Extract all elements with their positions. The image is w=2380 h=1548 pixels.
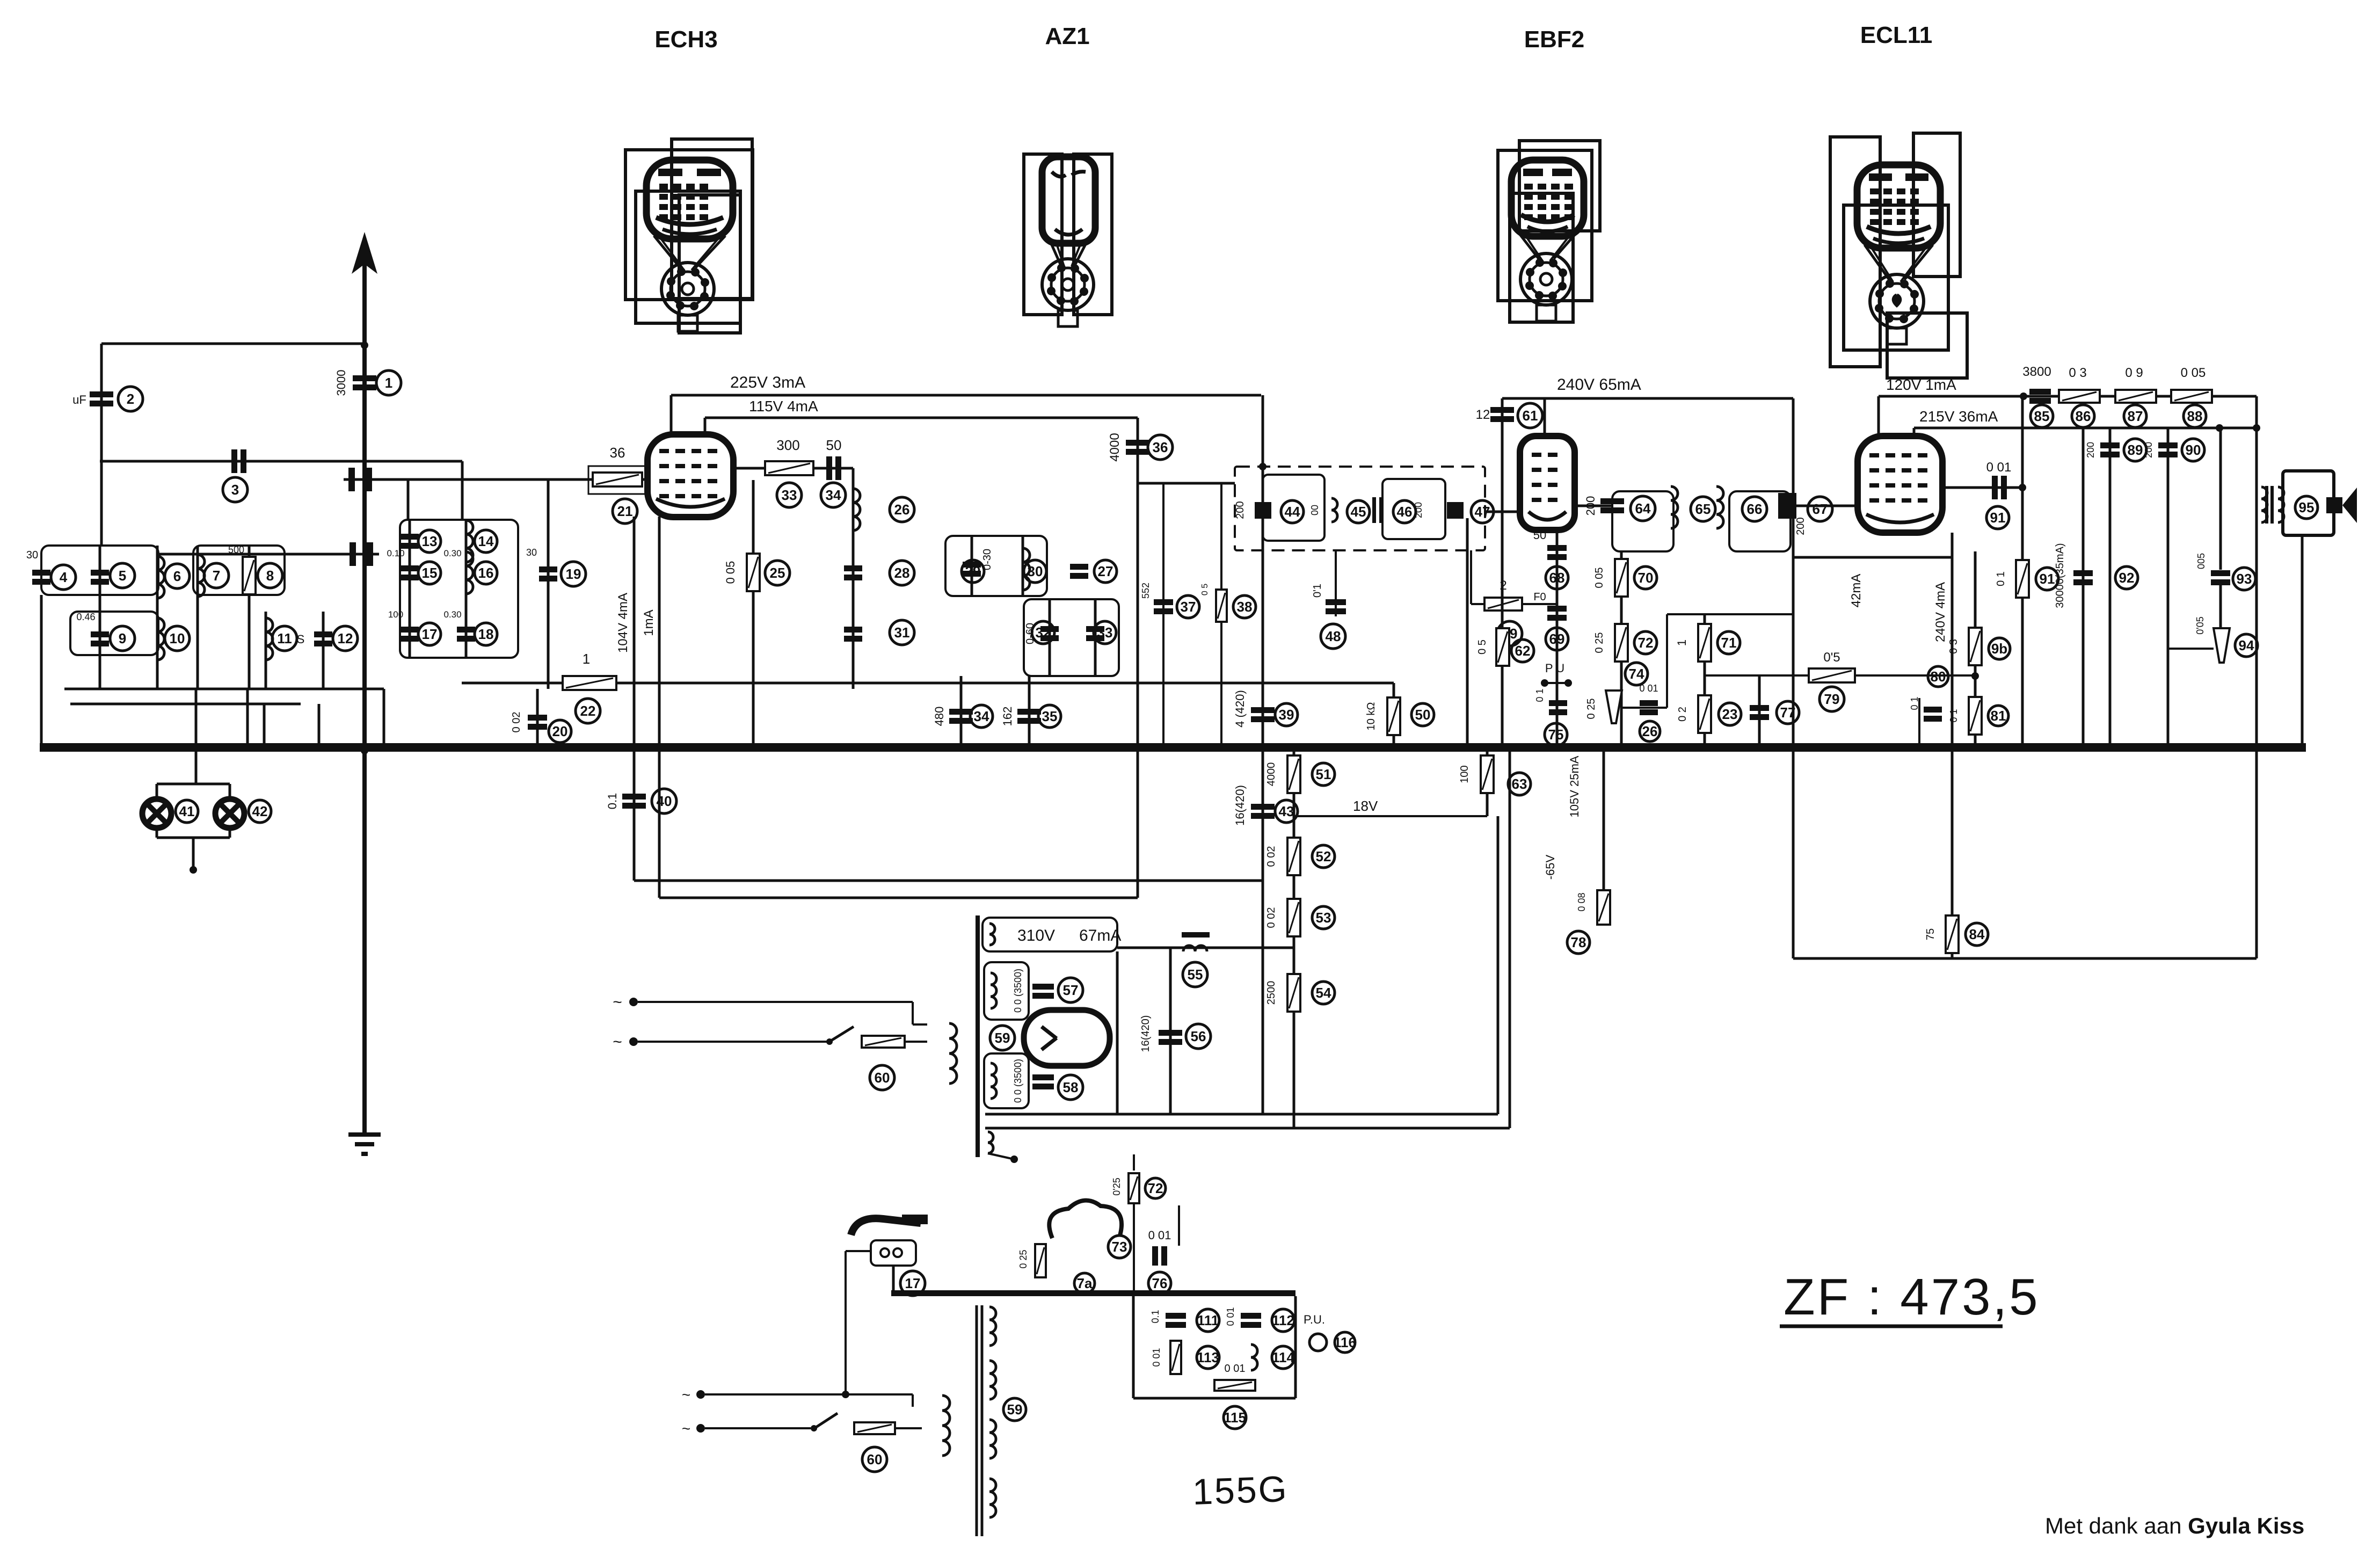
svg-text:115: 115 (1224, 1409, 1246, 1426)
capacitor 69 F0 (1547, 606, 1567, 621)
wire (638, 1041, 827, 1043)
ref circle 4 (51, 565, 76, 590)
wire (2255, 396, 2258, 958)
capacitor 111 0.1 (1166, 1313, 1186, 1328)
wire (942, 1293, 943, 1394)
dial lamp 2 (215, 799, 244, 828)
svg-text:0 05: 0 05 (1593, 568, 1605, 588)
IF box 2 (1382, 479, 1445, 539)
wire (2219, 585, 2222, 628)
svg-text:240V 65mA: 240V 65mA (1557, 376, 1641, 394)
capacitor 68 50 (1547, 545, 1567, 560)
speaker box (2283, 471, 2334, 535)
wire (263, 704, 266, 751)
svg-text:116: 116 (1334, 1334, 1356, 1350)
wire (156, 546, 159, 689)
wire (265, 612, 267, 689)
svg-text:67mA: 67mA (1079, 927, 1121, 944)
svg-text:200: 200 (2143, 442, 2154, 458)
tube ECL11 pictorial (1830, 133, 1967, 378)
wire (322, 612, 325, 689)
wire (985, 1113, 1498, 1116)
svg-text:9: 9 (119, 630, 126, 646)
ref circle 85 (2030, 405, 2053, 427)
chassis ground bus (40, 743, 2306, 752)
wire (1793, 556, 1952, 559)
svg-text:63: 63 (1512, 776, 1527, 792)
svg-text:43: 43 (1279, 803, 1294, 819)
HT winding box 310V (982, 918, 1117, 951)
output transformer (2267, 486, 2272, 524)
ref circle 115 (1224, 1406, 1246, 1429)
wire (2167, 428, 2170, 743)
svg-text:2500: 2500 (1265, 981, 1277, 1005)
svg-text:48: 48 (1326, 628, 1341, 644)
wire (229, 827, 231, 838)
svg-text:73: 73 (1112, 1239, 1127, 1255)
svg-text:4000: 4000 (1108, 433, 1122, 461)
svg-text:0 01: 0 01 (1225, 1307, 1236, 1326)
svg-text:P U: P U (1545, 662, 1564, 675)
svg-text:AZ1: AZ1 (1045, 23, 1089, 49)
svg-text:4 (420): 4 (420) (1233, 690, 1247, 728)
wire (1501, 398, 1504, 743)
svg-text:17: 17 (905, 1275, 921, 1291)
svg-text:ZF : 473,5: ZF : 473,5 (1784, 1268, 2040, 1326)
tube AZ1 pictorial (1024, 154, 1112, 326)
wire (1951, 533, 1954, 743)
ref circle 42 (249, 800, 271, 823)
capacitor 33b (1086, 626, 1104, 641)
ref circle 11 (272, 626, 297, 651)
svg-text:105V 25mA: 105V 25mA (1568, 755, 1581, 817)
svg-text:3: 3 (231, 482, 239, 498)
ref circle 60 (870, 1065, 894, 1090)
ref circle 116 (1334, 1332, 1356, 1353)
svg-text:0 01: 0 01 (1151, 1348, 1162, 1367)
ref circle 91 (2036, 568, 2058, 590)
coil (988, 1132, 993, 1153)
svg-text:74: 74 (1629, 666, 1644, 682)
IFT coil a (1671, 486, 1678, 528)
coil (942, 1396, 950, 1456)
ref circle 89 (2124, 439, 2146, 461)
wire (1116, 951, 1119, 1114)
wire (195, 751, 198, 784)
svg-text:16(420): 16(420) (1140, 1015, 1152, 1052)
resistor 0.9 (2115, 390, 2156, 403)
output transformer secondary (2278, 487, 2284, 522)
IFT coil b (1716, 486, 1723, 528)
svg-text:0 9: 0 9 (2125, 366, 2143, 380)
wire (1791, 505, 1858, 507)
ref circle 72 (1145, 1178, 1166, 1198)
wire (671, 394, 1261, 397)
svg-text:92: 92 (2119, 570, 2135, 586)
pickup PU (1309, 1334, 1327, 1351)
svg-text:72: 72 (1638, 635, 1654, 651)
ref circle 79 (1819, 687, 1844, 711)
svg-text:18V: 18V (1353, 798, 1378, 814)
capacitor 3 (231, 449, 246, 473)
svg-text:200: 200 (1795, 517, 1807, 535)
svg-text:225V 3mA: 225V 3mA (730, 374, 805, 391)
svg-text:53: 53 (1316, 910, 1331, 926)
ref circle 49 (1497, 621, 1522, 646)
ref circle 59 (1003, 1398, 1026, 1421)
wire (229, 784, 231, 800)
ref circle 30 (1024, 560, 1046, 583)
resistor 8 500 (243, 557, 256, 594)
ref circle 1 (376, 370, 401, 395)
wire (752, 480, 755, 751)
svg-text:94: 94 (2239, 637, 2254, 653)
ref circle 46 (1393, 500, 1416, 523)
svg-text:215V 36mA: 215V 36mA (1919, 408, 1998, 425)
svg-text:21: 21 (617, 503, 633, 519)
coil 10 (157, 618, 164, 660)
svg-text:0.1: 0.1 (606, 793, 619, 810)
ref circle 48 (1321, 624, 1345, 649)
switch contact box (588, 466, 646, 494)
ref circle 44 (1281, 500, 1304, 523)
svg-text:0 3: 0 3 (1948, 639, 1960, 654)
wire (64, 688, 384, 691)
ref circle 74 (1625, 663, 1648, 685)
svg-text:27: 27 (1098, 563, 1113, 579)
wire (705, 1393, 913, 1396)
wire (383, 689, 385, 751)
sub transformer core (976, 1305, 978, 1536)
wire (156, 827, 158, 838)
svg-text:1: 1 (583, 651, 590, 667)
svg-text:6: 6 (173, 568, 181, 584)
wire (248, 546, 251, 689)
resistor 70 0.05 (1615, 559, 1628, 597)
dashed IF filter box (1235, 467, 1485, 550)
wire (1470, 550, 1472, 604)
wire (1914, 427, 2257, 430)
wire (985, 1127, 1510, 1130)
svg-text:113: 113 (1197, 1349, 1219, 1365)
wire (1262, 395, 1264, 1114)
svg-text:65: 65 (1695, 501, 1711, 517)
wire (1132, 1296, 1135, 1398)
svg-text:80: 80 (1931, 668, 1946, 685)
wire (921, 1407, 922, 1428)
capacitor 31 (844, 627, 862, 642)
svg-text:76: 76 (1152, 1275, 1168, 1291)
fuse resistor 60 (862, 1036, 905, 1048)
svg-text:32: 32 (1036, 624, 1051, 641)
wire (1918, 698, 1920, 743)
svg-text:45: 45 (1351, 504, 1366, 520)
winding bumps a (989, 924, 995, 945)
svg-text:8: 8 (266, 568, 274, 584)
svg-text:26: 26 (894, 502, 910, 518)
ref circle 53 (1312, 906, 1335, 929)
capacitor antenna coupling (348, 468, 372, 491)
ref circle 86 (2072, 405, 2094, 427)
ref circle 36 (1148, 435, 1173, 460)
svg-text:4: 4 (60, 569, 68, 585)
capacitor 48 0.1 (1326, 599, 1346, 614)
wire (156, 784, 158, 800)
capacitor 43 16(420) (1251, 804, 1275, 819)
svg-text:115V 4mA: 115V 4mA (749, 398, 818, 415)
wire (1471, 603, 1557, 605)
resistor 81 0.1 (1969, 697, 1982, 735)
svg-text:68: 68 (1549, 570, 1565, 586)
capacitor 36 4000 (1126, 440, 1149, 455)
svg-text:69: 69 (1549, 631, 1565, 647)
ref circle 62 (1511, 639, 1534, 662)
resistor 53 0.02 (1287, 899, 1300, 936)
ref circle 54 (1312, 982, 1335, 1004)
capacitor trap (350, 542, 373, 566)
svg-text:26: 26 (1642, 723, 1658, 739)
svg-text:41: 41 (179, 803, 195, 819)
wire (2168, 648, 2214, 650)
svg-text:7: 7 (213, 568, 220, 584)
svg-text:0 08: 0 08 (1576, 892, 1587, 911)
tube (sub chassis) partial (1049, 1201, 1122, 1238)
wire (192, 838, 195, 870)
svg-text:200: 200 (2085, 442, 2096, 458)
ref circle 91 (1986, 506, 2009, 529)
svg-text:79: 79 (1824, 691, 1840, 707)
svg-text:40: 40 (657, 793, 672, 809)
wire (1974, 551, 1977, 743)
IF transformer box 2 (1729, 491, 1791, 551)
wire (1133, 1203, 1135, 1293)
ref circle 50 (1411, 703, 1434, 726)
capacitor (1032, 984, 1054, 999)
oscillator box 1 (945, 536, 1047, 596)
wire (1169, 948, 1172, 1114)
wire (1913, 428, 1916, 436)
svg-text:35: 35 (1042, 708, 1058, 724)
capacitor 90 200 (2158, 442, 2178, 457)
wire (2301, 535, 2304, 747)
ref circle 6 (165, 564, 190, 588)
svg-text:52: 52 (1316, 848, 1331, 864)
wire (1485, 511, 1520, 512)
ref circle 90 (2182, 439, 2204, 461)
coil 30 (1023, 548, 1030, 590)
sub winding 3 (989, 1420, 996, 1458)
capacitor 91 0.01 (1992, 476, 2007, 499)
capacitor 15 (401, 565, 419, 580)
ref circle 20 (549, 720, 571, 743)
oscillator coil 26 (853, 489, 860, 530)
ref circle 9 (110, 626, 135, 651)
capacitor 56 16(420) (1159, 1030, 1182, 1045)
ref circle 32 (1032, 621, 1054, 644)
svg-text:93: 93 (2237, 571, 2252, 587)
svg-text:~: ~ (613, 993, 622, 1011)
wire (1294, 815, 1487, 817)
wire (1022, 536, 1024, 596)
resistor 38 0.5 (1216, 590, 1227, 622)
resistor 0.3 (2059, 390, 2100, 403)
resistor 72 0.25 (1615, 624, 1628, 662)
ref circle 7 (204, 563, 229, 588)
svg-text:39: 39 (1279, 707, 1294, 723)
ref circle 76 (1148, 1272, 1171, 1295)
ref circle 8 (258, 563, 282, 588)
wire (1951, 752, 1954, 958)
svg-text:86: 86 (2076, 408, 2091, 424)
svg-text:22: 22 (580, 703, 596, 719)
sub winding 2 (989, 1361, 996, 1399)
resistor 72 0.25 (1129, 1173, 1139, 1203)
ref circle 29 (962, 560, 984, 583)
ref circle 17 (900, 1271, 925, 1296)
winding bumps c (991, 1063, 996, 1099)
ref circle 69 (1546, 628, 1568, 650)
wire (1758, 677, 1761, 751)
ref circle 67 (1808, 497, 1832, 521)
ref circle 114 (1272, 1346, 1295, 1369)
svg-text:72: 72 (1148, 1180, 1163, 1196)
speaker icon (2326, 488, 2357, 523)
wire (1793, 957, 2257, 960)
svg-text:16(420): 16(420) (1233, 785, 1247, 826)
svg-text:0.1: 0.1 (1150, 1310, 1161, 1323)
svg-text:59: 59 (995, 1030, 1010, 1046)
svg-text:88: 88 (2187, 408, 2203, 424)
ground symbol (348, 1135, 381, 1154)
wire (960, 1293, 962, 1313)
capacitor 34 50 (826, 456, 841, 480)
svg-text:005: 005 (2196, 553, 2207, 569)
resistor 79 0.5 (1809, 668, 1855, 682)
capacitor 75 0.1 (1549, 700, 1567, 715)
svg-text:12: 12 (1476, 408, 1490, 422)
svg-text:61: 61 (1523, 408, 1538, 424)
ref circle 73 (1108, 1236, 1131, 1258)
resistor 113 0.01 (1170, 1341, 1181, 1374)
svg-text:10 kΩ: 10 kΩ (1365, 702, 1377, 731)
svg-text:1: 1 (385, 375, 392, 391)
wire (988, 1153, 1014, 1159)
capacitor 5 (91, 570, 109, 585)
ref circle 28 (890, 561, 914, 585)
svg-text:uF: uF (72, 393, 86, 406)
wire (704, 418, 707, 434)
wire (318, 704, 321, 751)
svg-text:0.10: 0.10 (387, 548, 404, 558)
wire (1502, 397, 1793, 400)
resistor 54 2500 (1287, 974, 1300, 1012)
ref circle 93 (2233, 568, 2255, 590)
svg-text:112: 112 (1272, 1312, 1294, 1328)
svg-text:S: S (297, 633, 305, 646)
svg-text:84: 84 (1969, 926, 1985, 942)
capacitor 28 (844, 565, 862, 580)
resistor 22 1 (563, 676, 616, 690)
svg-text:62: 62 (1515, 643, 1531, 659)
ref circle 26 (890, 497, 914, 522)
svg-text:55: 55 (1188, 966, 1203, 983)
coil 11 (266, 618, 273, 660)
ref circle 2 (118, 387, 143, 411)
wire (2219, 428, 2222, 570)
capacitor 93 0.05 (2211, 570, 2230, 585)
resistor 115 0.01 (1214, 1380, 1255, 1391)
ref circle 52 (1312, 845, 1335, 868)
svg-text:50: 50 (1415, 707, 1431, 723)
wire (2021, 396, 2024, 743)
svg-text:9b: 9b (1991, 641, 2007, 657)
capacitor 2 (90, 391, 113, 406)
ref circle 9b (1989, 638, 2010, 659)
wire (1792, 398, 1795, 557)
ref circle 10 (165, 626, 190, 651)
capacitor 35 162 (1017, 709, 1041, 724)
wire (100, 460, 462, 463)
capacitor 26 0.01 (1640, 700, 1658, 715)
IF box 1 (1263, 475, 1324, 541)
svg-text:0 25: 0 25 (1018, 1249, 1029, 1268)
coil 6 (157, 556, 164, 598)
svg-text:56: 56 (1191, 1028, 1206, 1044)
wire (461, 461, 464, 520)
svg-text:0.30: 0.30 (443, 548, 461, 558)
capacitor 44 (solid) (1255, 502, 1271, 519)
wire (658, 517, 661, 898)
svg-text:17: 17 (422, 626, 438, 642)
wire (70, 703, 301, 706)
wire (1509, 751, 1511, 1128)
svg-text:-65V: -65V (1544, 854, 1557, 880)
svg-text:18: 18 (478, 626, 494, 642)
svg-text:0 1: 0 1 (1534, 688, 1545, 702)
wire (1877, 396, 1880, 436)
svg-text:90: 90 (2186, 442, 2201, 458)
svg-text:23: 23 (1722, 706, 1738, 722)
ref circle 47 (1471, 500, 1494, 523)
sub winding 4 (989, 1479, 996, 1517)
wire (1220, 483, 1222, 743)
svg-text:~: ~ (613, 1033, 622, 1051)
svg-text:P.U.: P.U. (1304, 1313, 1325, 1326)
wire (949, 1023, 950, 1046)
svg-text:71: 71 (1721, 635, 1737, 651)
capacitor 34b 480 (949, 709, 973, 724)
svg-text:155G: 155G (1192, 1469, 1289, 1513)
resistor 25 0.05 (747, 554, 760, 591)
svg-text:0 01: 0 01 (1225, 1363, 1246, 1375)
capacitor 0.01 sub (1152, 1246, 1167, 1266)
wire (100, 344, 103, 546)
svg-text:0.30: 0.30 (443, 609, 461, 620)
svg-text:54: 54 (1316, 985, 1331, 1001)
wire (845, 1251, 847, 1394)
ref circle 112 (1272, 1309, 1294, 1332)
svg-text:34: 34 (826, 487, 841, 503)
svg-text:0'5: 0'5 (1823, 650, 1840, 665)
wire (1544, 398, 1546, 436)
ref circle 33 (777, 483, 802, 507)
resistor 63 100 (1481, 755, 1494, 793)
ref circle 72 (1634, 631, 1657, 654)
svg-text:44: 44 (1285, 504, 1300, 520)
wire (1502, 719, 1568, 720)
ref circle 92 (2115, 566, 2138, 589)
power transformer core (976, 915, 980, 1157)
